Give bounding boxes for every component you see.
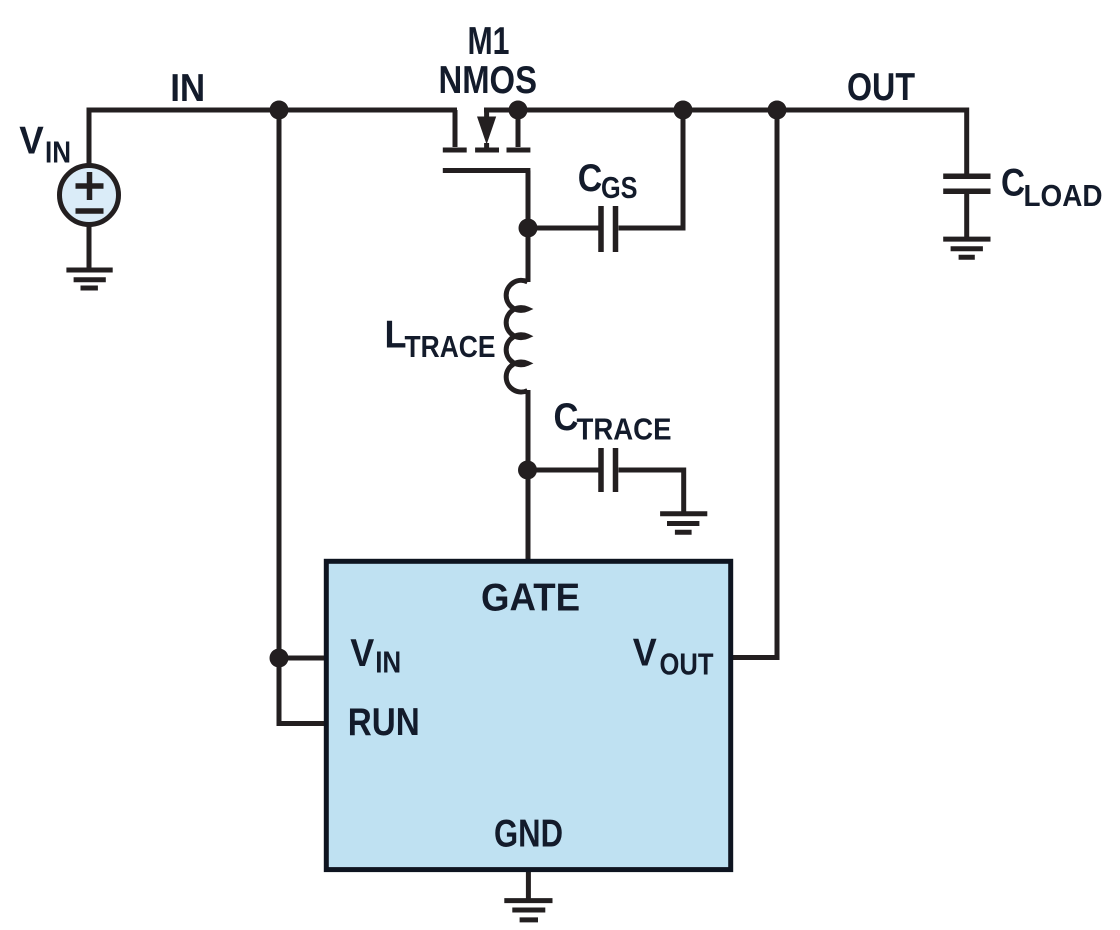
ground (CTRACE) <box>660 514 707 533</box>
svg-text:V: V <box>19 119 44 162</box>
svg-text:NMOS: NMOS <box>439 59 538 102</box>
wire: trace node to CTRACE left plate <box>528 468 599 473</box>
svg-text:V: V <box>633 632 657 675</box>
wire: IN rail left segment <box>89 110 457 165</box>
node: IN junction dot <box>270 101 289 120</box>
svg-text:OUT: OUT <box>847 66 915 109</box>
node: CTRACE junction dot <box>518 461 537 480</box>
svg-text:C: C <box>554 396 579 439</box>
svg-text:M1: M1 <box>468 20 510 63</box>
transistor M1 NMOS <box>443 110 531 228</box>
ground (VIN source) <box>66 270 112 288</box>
body arrow of M1 <box>477 117 496 145</box>
capacitor CGS <box>601 206 616 252</box>
svg-text:IN: IN <box>375 645 401 680</box>
IC block U1 <box>326 561 730 869</box>
node: CGS rail dot <box>674 101 693 120</box>
wire: CGS right plate to top rail <box>619 110 684 228</box>
ground (IC GND pin) <box>504 901 552 920</box>
svg-text:GATE: GATE <box>481 576 580 619</box>
svg-text:GS: GS <box>601 170 638 205</box>
svg-text:TRACE: TRACE <box>577 412 672 447</box>
capacitor CLOAD <box>943 176 990 191</box>
node: VIN pin junction dot <box>270 649 289 668</box>
svg-text:GND: GND <box>494 812 563 855</box>
wire: inductor bottom to GATE pin <box>526 390 531 561</box>
voltage source VIN <box>60 166 119 225</box>
svg-text:IN: IN <box>45 135 71 170</box>
wire: VIN pin stub <box>279 656 326 661</box>
svg-text:C: C <box>1001 162 1025 205</box>
wire: top rail right segment to OUT corner <box>484 110 967 176</box>
inductor LTRACE <box>506 280 527 392</box>
svg-text:L: L <box>385 314 407 357</box>
ground (CLOAD) <box>943 239 990 257</box>
wire: CTRACE right plate to ground <box>619 470 684 513</box>
wire: VOUT pin to top rail <box>731 110 777 658</box>
node: gate/CGS junction dot <box>519 219 538 238</box>
wire: gate vertical into inductor <box>526 228 531 282</box>
wire: VIN source bottom stem <box>87 225 92 268</box>
wire: left vertical bus from IN node down to RUN <box>279 110 326 724</box>
wire: CLOAD bottom stem <box>964 191 969 239</box>
svg-text:RUN: RUN <box>348 701 420 744</box>
node: VOUT rail dot <box>768 101 787 120</box>
svg-text:TRACE: TRACE <box>405 329 496 364</box>
wire: gate node to CGS left plate <box>528 226 599 231</box>
svg-text:LOAD: LOAD <box>1024 178 1103 213</box>
node: M1 source dot <box>509 101 528 120</box>
wire: GND pin stem <box>526 870 531 901</box>
svg-text:OUT: OUT <box>660 647 714 682</box>
svg-text:C: C <box>578 157 603 200</box>
capacitor CTRACE <box>601 448 616 492</box>
svg-text:IN: IN <box>170 67 205 110</box>
svg-text:V: V <box>350 632 374 675</box>
